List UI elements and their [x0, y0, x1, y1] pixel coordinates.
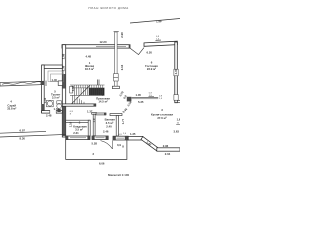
south wall band 4 to zigzag	[128, 136, 143, 140]
svg-text:1.35: 1.35	[136, 93, 142, 97]
svg-text:2.98: 2.98	[61, 53, 65, 59]
wall: top wall of right room (Гостиная), slight slant	[144, 41, 177, 46]
svg-text:5.35: 5.35	[138, 100, 144, 104]
svg-text:1.9: 1.9	[92, 118, 96, 122]
south wall band 3 (window)	[113, 136, 128, 140]
wall: top wall of left room (Жилая)	[62, 45, 130, 48]
svg-text:8.30: 8.30	[20, 136, 26, 140]
terrace outline	[66, 140, 127, 160]
svg-text:3.5 м²: 3.5 м²	[52, 96, 60, 100]
south wall band 1 (window)	[66, 136, 90, 140]
kitchen top double line	[132, 96, 159, 98]
shower cabin in toilet	[48, 71, 64, 82]
east wall corner tick at kitchen	[174, 95, 178, 101]
wall: west wall main	[62, 45, 65, 137]
bottom-left dimension line 1	[0, 131, 46, 133]
svg-text:27.6 м²: 27.6 м²	[157, 116, 166, 120]
svg-text:2.21: 2.21	[73, 131, 79, 135]
svg-text:2.16: 2.16	[120, 64, 124, 70]
svg-text:1,6: 1,6	[177, 117, 180, 121]
svg-text:2.96: 2.96	[163, 144, 169, 148]
svg-text:1.40: 1.40	[52, 78, 58, 82]
сарай window band (left wing top wall)	[0, 81, 44, 86]
svg-text:16.5 м²: 16.5 м²	[85, 67, 94, 71]
svg-text:4.00: 4.00	[174, 68, 178, 74]
kitchen top wall cap	[127, 97, 132, 102]
Кладовая right wall	[88, 120, 90, 136]
svg-text:6.20: 6.20	[147, 51, 153, 55]
svg-text:1.16: 1.16	[43, 97, 47, 103]
svg-text:1.77: 1.77	[121, 118, 125, 124]
mid wall bottom caps	[112, 86, 119, 88]
svg-text:2.48: 2.48	[46, 113, 52, 117]
svg-text:6.07: 6.07	[20, 129, 26, 133]
svg-text:12.20: 12.20	[100, 40, 107, 44]
svg-text:1.35: 1.35	[130, 132, 136, 136]
dimension line top right (slanted)	[130, 19, 180, 24]
V notch entrance between top walls	[130, 48, 144, 55]
svg-text:2.46: 2.46	[103, 130, 109, 134]
svg-text:4.48: 4.48	[86, 55, 92, 59]
Кладовая top wall	[66, 120, 91, 122]
svg-text:1.98: 1.98	[156, 19, 162, 23]
stairs: left post	[70, 86, 73, 93]
svg-text:2.04: 2.04	[165, 152, 171, 156]
svg-text:1.16: 1.16	[68, 121, 72, 127]
wall: toilet protrusion bottom	[42, 111, 63, 114]
door gap ticks right of band	[45, 81, 47, 86]
wall: toilet protrusion left	[42, 65, 45, 113]
svg-text:2.40: 2.40	[106, 125, 112, 129]
svg-text:ПЛАН ЖИЛОГО ДОМА: ПЛАН ЖИЛОГО ДОМА	[89, 6, 129, 10]
svg-text:23.9 м²: 23.9 м²	[147, 67, 156, 71]
stairs: main treads	[75, 88, 88, 95]
svg-text:Масштаб 1:100: Масштаб 1:100	[108, 173, 129, 177]
svg-text:14.5 м²: 14.5 м²	[98, 100, 107, 104]
stairs: middle rail	[70, 94, 105, 96]
wall: mid vertical wall (x=116) with upper stub	[115, 32, 117, 88]
door in south wall w/ swing	[101, 141, 113, 149]
window on east wall	[174, 69, 178, 76]
svg-text:3.63: 3.63	[174, 130, 180, 134]
svg-text:5.28: 5.28	[92, 142, 98, 146]
zigzag diagonal wall	[141, 137, 158, 151]
bottom-left dimension line 2	[0, 134, 66, 137]
svg-text:1.74: 1.74	[54, 107, 60, 111]
wall: toilet protrusion top	[42, 65, 62, 68]
stairs: south band with ticks (upper flight)	[70, 85, 105, 88]
south wall band 2 (window)	[92, 136, 108, 140]
bathroom left wall w/ cap	[92, 113, 97, 115]
svg-text:6.06: 6.06	[99, 162, 105, 166]
svg-text:26: 26	[100, 88, 104, 92]
stub wall in Жилая south	[97, 80, 99, 86]
wall below stairs	[62, 104, 96, 106]
svg-text:0,9: 0,9	[117, 143, 121, 147]
terrace wall band B	[157, 148, 180, 151]
stairs: lower flight treads	[73, 95, 85, 103]
window symbol on mid wall	[114, 74, 119, 78]
wall: east wall	[175, 42, 178, 103]
bathroom T wall horizontal	[110, 114, 122, 116]
svg-text:1.98: 1.98	[71, 85, 75, 91]
svg-text:2.98: 2.98	[120, 32, 124, 38]
window lines in top wall	[96, 45, 126, 47]
bathroom top stub	[96, 113, 106, 115]
svg-text:33.8 м²: 33.8 м²	[7, 107, 16, 111]
toilet bowl	[57, 101, 62, 104]
bathroom T wall vertical	[116, 116, 118, 137]
washbasin	[47, 100, 54, 107]
stairs: diagonal break line	[72, 85, 91, 104]
